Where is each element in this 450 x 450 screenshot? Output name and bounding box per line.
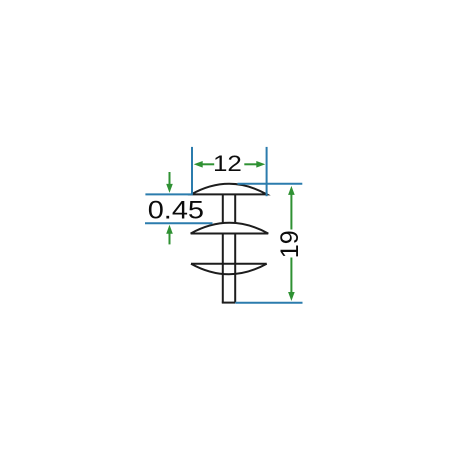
stem right line bbox=[234, 194, 236, 302]
fin 3 top line bbox=[191, 263, 267, 265]
extension line lower-left (0.45 dim) bbox=[145, 222, 213, 224]
arrow down (0.45 dim, above upper line) bbox=[169, 172, 171, 185]
extension line upper-left (0.45 dim) bbox=[145, 193, 192, 195]
fin 3 lower arc bbox=[191, 264, 267, 275]
fin 2 dome (white filled, covers stem) bbox=[191, 223, 269, 234]
extension line right (12 dim) bbox=[266, 147, 268, 196]
arrowhead 19 bottom bbox=[288, 292, 295, 301]
svg-text:0.45: 0.45 bbox=[148, 197, 204, 224]
arrowhead 12 right bbox=[256, 161, 265, 168]
extension line left (12 dim) bbox=[191, 147, 193, 195]
svg-text:19: 19 bbox=[276, 230, 304, 258]
stem bottom line bbox=[222, 302, 235, 304]
svg-text:12: 12 bbox=[213, 152, 242, 177]
extension line top-right (19 dim) bbox=[238, 183, 303, 185]
arrow up (0.45 dim, below lower line) bbox=[169, 232, 171, 244]
dimension line 19, shaft segments bbox=[290, 194, 292, 293]
extension line bottom-right (19 dim) bbox=[235, 302, 302, 304]
cap dome (white filled) bbox=[191, 184, 267, 195]
stem left line bbox=[222, 194, 224, 302]
arrowhead 12 left bbox=[194, 161, 203, 168]
dimension line 12, shaft segments bbox=[201, 163, 259, 165]
arrowhead 19 top bbox=[288, 186, 295, 195]
